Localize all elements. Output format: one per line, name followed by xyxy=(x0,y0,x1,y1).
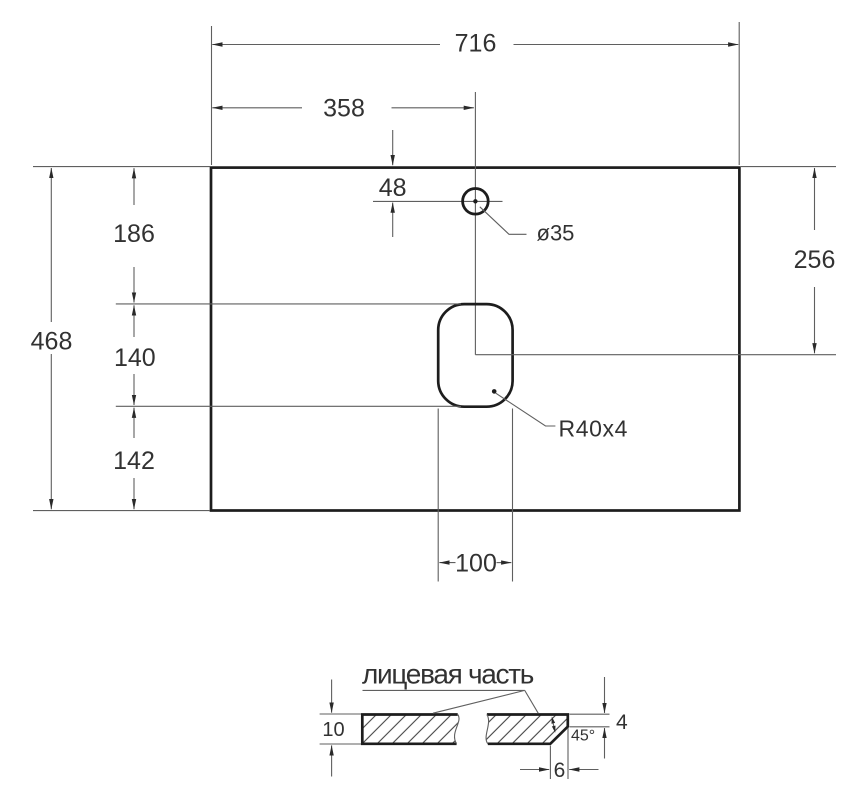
dimension 6 xyxy=(520,759,599,782)
extension line left bottom (468) xyxy=(33,510,210,512)
centre line vertical through faucet hole and basin cutout xyxy=(474,92,476,355)
dimension 142 xyxy=(113,408,155,510)
extension lines for 6 xyxy=(550,728,568,779)
extension lines for 10 xyxy=(320,714,361,744)
dimension 4 xyxy=(605,677,629,759)
dimension 100 xyxy=(439,549,511,577)
section view: left slab segment hatch fill xyxy=(362,715,459,744)
section view: left slab break line xyxy=(455,715,460,744)
svg-text:256: 256 xyxy=(794,246,836,274)
dimension 48 xyxy=(379,130,407,237)
extension line basin left tangent (100) xyxy=(437,409,439,582)
svg-text:142: 142 xyxy=(113,447,155,475)
svg-text:лицевая часть: лицевая часть xyxy=(362,659,534,690)
extension line left top (468) xyxy=(33,166,210,168)
dimension 10 xyxy=(322,680,344,777)
svg-text:48: 48 xyxy=(379,174,407,202)
section view: right slab break line xyxy=(486,715,489,744)
svg-text:186: 186 xyxy=(113,220,155,248)
svg-text:140: 140 xyxy=(114,344,156,372)
svg-text:ø35: ø35 xyxy=(537,221,575,246)
faucet hole ø35 xyxy=(463,189,489,215)
svg-text:R40x4: R40x4 xyxy=(559,415,628,441)
reference line at basin top tangent xyxy=(116,303,461,305)
extension line top-left corner (716 left) xyxy=(211,26,213,165)
dimension 256 xyxy=(794,168,836,353)
extension line right bottom (256, from basin centre) xyxy=(475,354,836,356)
dimension 186 xyxy=(113,168,155,302)
extension lines for 4 xyxy=(570,714,610,727)
svg-text:6: 6 xyxy=(554,759,566,782)
label litsevaya chast with leaders xyxy=(362,659,538,714)
section view: left slab segment outline xyxy=(362,715,457,744)
svg-text:100: 100 xyxy=(455,549,497,577)
svg-text:468: 468 xyxy=(31,327,73,355)
svg-text:4: 4 xyxy=(616,711,628,734)
leader dot and label R40x4 xyxy=(492,389,628,441)
extension line basin right tangent (100) xyxy=(512,409,514,582)
dimension 358 xyxy=(212,95,474,123)
dimension 716 xyxy=(212,30,738,58)
dimension 468 xyxy=(31,168,73,509)
reference line at basin bottom tangent xyxy=(116,405,461,407)
dimension 140 xyxy=(114,305,156,405)
section view: right slab segment outline with 45 deg chamfer xyxy=(487,715,568,744)
svg-text:10: 10 xyxy=(322,719,344,741)
45 degree angle indicator xyxy=(552,717,596,745)
svg-text:716: 716 xyxy=(455,30,497,58)
leader and label ø35 xyxy=(480,207,575,246)
basin cutout rounded rectangle xyxy=(438,304,512,407)
section view: right slab segment hatch fill xyxy=(486,715,568,744)
extension line top-right corner (716 right) xyxy=(738,22,740,165)
svg-text:45°: 45° xyxy=(571,728,595,745)
extension line right top (256) xyxy=(741,166,836,168)
svg-text:358: 358 xyxy=(323,95,365,123)
centre line horizontal through faucet hole xyxy=(373,200,503,202)
countertop panel outline xyxy=(211,168,739,511)
